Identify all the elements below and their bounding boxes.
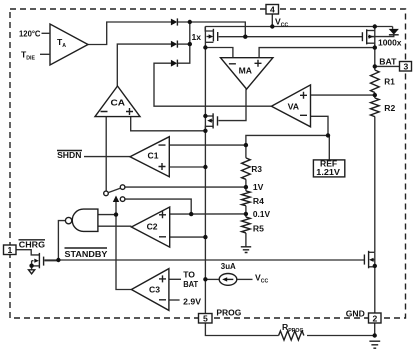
svg-text:3: 3 bbox=[404, 62, 409, 72]
resistor R5 bbox=[242, 217, 251, 233]
pin 3 BAT bbox=[400, 62, 412, 72]
node: 1x drain junction bbox=[203, 45, 207, 49]
switch throw circle upper bbox=[120, 185, 125, 190]
wire: TA output to D1 anode bbox=[88, 22, 171, 45]
wire: CHRG pin to NMOS drain bbox=[16, 250, 39, 255]
node: C2 plus junction bbox=[189, 212, 193, 216]
pin 4 VCC bbox=[266, 5, 279, 15]
svg-text:R4: R4 bbox=[253, 196, 264, 206]
wire: PMOS common gate line bbox=[219, 36, 363, 38]
comparator C1 bbox=[130, 137, 169, 177]
wire: R1-R2 junction to VA plus bbox=[311, 94, 375, 96]
svg-text:CHRG: CHRG bbox=[19, 239, 46, 249]
wire: NAND upper input bbox=[98, 214, 116, 216]
svg-text:0.1V: 0.1V bbox=[253, 209, 270, 219]
label CHRG with overline bbox=[19, 239, 46, 249]
svg-text:CA: CA bbox=[111, 98, 126, 108]
svg-text:SHDN: SHDN bbox=[57, 150, 81, 160]
wire: R1 R2 interconnect bbox=[374, 93, 376, 99]
current source 3uA bbox=[219, 274, 237, 286]
node: sense FET source junction bbox=[203, 129, 207, 133]
op-amp MA bbox=[221, 58, 273, 89]
resistor R2 bbox=[370, 98, 379, 117]
wire: RPROG to GND pin and earth bbox=[307, 324, 375, 336]
transistor M2 1000x PMOS bbox=[362, 29, 374, 47]
wire: R4 R5 interconnect with 0.1V tap bbox=[245, 206, 247, 217]
wire: NAND output to CHRG NMOS gate bbox=[58, 221, 65, 260]
pin 2 GND bbox=[369, 313, 382, 324]
wire: BAT pin stub bbox=[375, 65, 400, 67]
wire: 3uA source left lead bbox=[205, 278, 219, 280]
node: right NMOS source junction bbox=[373, 264, 377, 268]
wire: NMOS source to GND pin bbox=[374, 252, 376, 313]
wire: body diode riser bbox=[392, 27, 394, 29]
diode D3 (from VA) bbox=[171, 60, 178, 67]
resistor R3 bbox=[242, 158, 251, 179]
op-amp TA bbox=[40, 24, 88, 65]
wire: VA minus to REF node bbox=[311, 116, 329, 135]
wire: CHRG NMOS source and bulk to ground bbox=[31, 261, 33, 270]
NAND gate U1 bbox=[65, 209, 98, 231]
wire: VCC pin riser bbox=[271, 14, 273, 27]
node: D1 cathode junction bbox=[188, 20, 192, 24]
wire: BAT vertical rail bbox=[374, 27, 376, 71]
svg-text:C2: C2 bbox=[147, 222, 158, 232]
label SHDN with overline bbox=[57, 150, 82, 160]
body diode of 1000x PMOS bbox=[389, 29, 399, 35]
svg-text:STANDBY: STANDBY bbox=[65, 249, 108, 259]
node: CHRG NMOS source junction bbox=[29, 264, 33, 268]
node: sense FET drain junction bbox=[203, 114, 207, 118]
op-amp CA bbox=[95, 86, 140, 117]
node: BAT pin junction bbox=[373, 64, 377, 68]
ground (R5 bottom) bbox=[241, 247, 251, 253]
node: C2 minus junction bbox=[203, 235, 207, 239]
svg-text:R3: R3 bbox=[251, 164, 262, 174]
label STANDBY with overline bbox=[65, 248, 108, 259]
wire: MA minus input bbox=[205, 48, 233, 58]
node: 0.1V tap junction bbox=[244, 212, 248, 216]
wire: CA output riser to D2 anode bbox=[117, 44, 171, 86]
wire: 1x drain sense line (to PROG) bbox=[204, 27, 206, 314]
svg-text:1: 1 bbox=[8, 245, 13, 255]
transistor M3 sense PMOS bbox=[205, 113, 217, 131]
REF 1.21V box bbox=[313, 160, 344, 177]
wire: C3 plus lead bbox=[169, 278, 181, 280]
svg-text:1000x: 1000x bbox=[378, 37, 402, 47]
svg-text:4: 4 bbox=[270, 5, 275, 15]
svg-text:R1: R1 bbox=[384, 76, 395, 86]
arrowhead on C3 riser bbox=[113, 196, 119, 203]
wire: MA output to sense FET gate bbox=[218, 89, 246, 121]
node: 3uA PROG junction bbox=[203, 277, 207, 281]
node: GND earth junction bbox=[373, 333, 377, 337]
wire: diode cathode bus bbox=[177, 22, 189, 63]
wire: VA output to D3 anode bbox=[154, 63, 271, 106]
diode D1 (from TA) bbox=[171, 18, 178, 25]
transistor M5 battery disconnect NMOS bbox=[364, 251, 374, 268]
node: C1 plus junction bbox=[203, 165, 207, 169]
wire: C1 minus input bbox=[169, 144, 246, 146]
wire: R2 bottom to NMOS drain bbox=[374, 117, 376, 253]
transistor M1 1x PMOS bbox=[205, 27, 218, 43]
ground (CHRG NMOS source, open triangle) bbox=[29, 270, 35, 274]
wire: C3 minus lead bbox=[169, 299, 180, 301]
wire: SHDN to C1 output bbox=[84, 156, 130, 158]
svg-text:3uA: 3uA bbox=[221, 261, 236, 271]
wire: REF node line to R3 top bbox=[246, 135, 328, 158]
wire: C1 plus input bbox=[169, 166, 205, 168]
svg-text:1V: 1V bbox=[253, 182, 264, 192]
node: R1 R2 junction bbox=[373, 93, 377, 97]
pin 5 PROG bbox=[199, 314, 213, 324]
wire: C2 plus input to 0.1V tap bbox=[170, 213, 246, 215]
switch pole circle bbox=[104, 191, 109, 196]
svg-text:PROG: PROG bbox=[216, 308, 241, 318]
svg-text:VA: VA bbox=[288, 102, 300, 112]
svg-text:R2: R2 bbox=[384, 103, 395, 113]
wire: MA plus input bbox=[259, 48, 375, 58]
node: NAND upper input junction bbox=[114, 212, 118, 216]
op-amp VA bbox=[271, 85, 310, 127]
svg-text:C3: C3 bbox=[149, 285, 160, 295]
resistor R4 bbox=[242, 191, 251, 206]
wire: REF box riser bbox=[328, 135, 330, 160]
wire: R3 R4 interconnect with 1V tap bbox=[245, 179, 247, 191]
wire: VCC rail bbox=[205, 26, 392, 28]
node: VCC rail right junction bbox=[373, 24, 377, 28]
svg-text:1.21V: 1.21V bbox=[316, 168, 341, 177]
node: 1V tap junction bbox=[244, 185, 248, 189]
node: D2 cathode junction bbox=[188, 42, 192, 46]
switch throw circle lower bbox=[120, 197, 125, 202]
wire: 1V tap to switch upper throw bbox=[125, 186, 246, 188]
svg-text:120°C: 120°C bbox=[19, 29, 41, 39]
ground (GND pin earth) bbox=[369, 341, 380, 348]
wire: body diode to bulk line bbox=[368, 35, 394, 37]
wire: switch lower throw to C2 plus node bbox=[125, 199, 191, 214]
node: C1 minus junction bbox=[244, 143, 248, 147]
svg-text:2: 2 bbox=[373, 314, 378, 324]
svg-text:C1: C1 bbox=[148, 151, 159, 161]
switch lever bbox=[108, 188, 120, 192]
wire: diode bus to gate line bbox=[190, 22, 246, 37]
svg-text:BAT: BAT bbox=[379, 56, 397, 66]
diode D2 (from CA) bbox=[171, 41, 178, 48]
transistor M4 CHRG pulldown NMOS bbox=[32, 253, 59, 268]
node: gate line junction bbox=[243, 35, 247, 39]
svg-text:MA: MA bbox=[239, 65, 252, 75]
svg-text:GND: GND bbox=[346, 309, 365, 319]
wire: 3uA source right lead to VCC bbox=[237, 278, 253, 280]
node: BAT drain junction bbox=[373, 45, 377, 49]
wire: PROG pin to RPROG bbox=[205, 323, 278, 336]
node: REF node junction bbox=[326, 133, 330, 137]
node: VCC pin junction bbox=[270, 24, 274, 28]
node: STANDBY gate junction bbox=[56, 258, 60, 262]
svg-text:5: 5 bbox=[203, 314, 208, 324]
wire: CA minus riser to switch pole bbox=[105, 117, 107, 192]
wire: C2 minus input bbox=[170, 236, 206, 238]
comparator C2 bbox=[131, 207, 169, 247]
svg-text:R5: R5 bbox=[253, 223, 264, 233]
svg-text:TO: TO bbox=[183, 269, 195, 279]
comparator C3 bbox=[131, 269, 169, 311]
wire: R5 bottom to ground bbox=[245, 233, 247, 247]
svg-text:BAT: BAT bbox=[183, 279, 199, 289]
resistor RPROG bbox=[279, 331, 304, 340]
svg-text:2.9V: 2.9V bbox=[183, 297, 201, 307]
wire: NAND lower input from C2 output bbox=[98, 225, 132, 227]
svg-text:1x: 1x bbox=[192, 32, 202, 42]
resistor R1 bbox=[370, 70, 379, 93]
wire: C3 output riser with mode arrow bbox=[116, 201, 131, 290]
wire: STANDBY line to right NMOS gate bbox=[44, 259, 364, 261]
pin 1 CHRG bbox=[4, 245, 17, 255]
wire: CA plus input to sense FET source bbox=[131, 117, 206, 131]
